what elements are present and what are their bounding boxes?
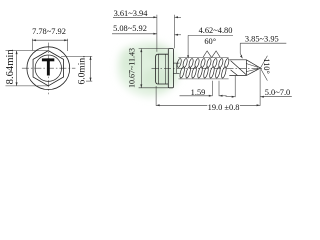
thread start edge: [176, 63, 178, 73]
svg-text:110°: 110°: [262, 58, 271, 74]
svg-text:3.85~3.95: 3.85~3.95: [245, 35, 279, 44]
watermark: [118, 42, 180, 97]
centerline: [152, 67, 266, 69]
thread helix loops upper: [176, 58, 229, 68]
drill body: [229, 60, 246, 76]
svg-text:3.61~3.94: 3.61~3.94: [114, 9, 149, 18]
head outline: [156, 54, 169, 84]
washer flange: [168, 49, 173, 88]
inner circle: [35, 55, 61, 81]
svg-text:10.67~11.43: 10.67~11.43: [128, 48, 137, 88]
thread helix loops lower: [179, 66, 227, 78]
svg-text:60°: 60°: [204, 37, 216, 46]
centerline vertical: [47, 43, 49, 95]
svg-text:4.62~4.80: 4.62~4.80: [199, 26, 233, 35]
svg-text:7.78~7.92: 7.78~7.92: [32, 27, 66, 36]
thread OD lines: [179, 56, 229, 58]
hexagon: [33, 51, 63, 86]
T mark crossbar: [42, 58, 54, 61]
svg-text:19.0 ±0.8: 19.0 ±0.8: [208, 103, 240, 112]
svg-text:5.0~7.0: 5.0~7.0: [265, 88, 290, 97]
110 deg angle lines: [260, 56, 267, 81]
T mark stem: [47, 58, 50, 75]
hex facet line: [158, 54, 160, 84]
svg-text:8.64min: 8.64min: [5, 49, 16, 85]
svg-text:5.08~5.92: 5.08~5.92: [113, 24, 147, 33]
washer outer circle: [27, 47, 70, 90]
shank root: [173, 62, 179, 64]
svg-text:6.0min.: 6.0min.: [77, 55, 87, 84]
drill point cone: [246, 60, 260, 76]
hex facet line 2: [164, 54, 166, 84]
centerline horizontal: [22, 67, 76, 69]
